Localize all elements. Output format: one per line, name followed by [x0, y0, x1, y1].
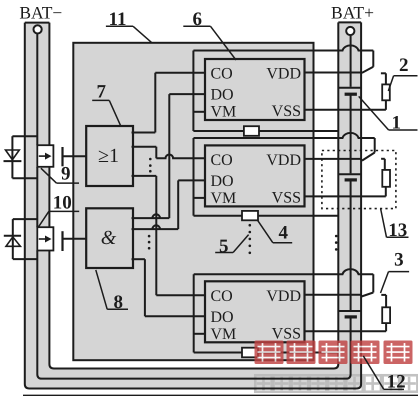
label 5 [215, 235, 248, 257]
label 4 [258, 220, 293, 243]
transistor Q9 [37, 145, 62, 167]
protection IC U3 [205, 281, 305, 343]
bottom rule [23, 394, 418, 396]
svg-text:CO: CO [211, 288, 233, 305]
AND gate (8) [86, 208, 133, 268]
svg-text:CO: CO [211, 152, 233, 169]
battery cell B3 [338, 311, 361, 317]
wire VDD2 [305, 158, 362, 160]
wire CO3 to OR [132, 176, 206, 295]
wire VM2 tap loop [194, 133, 375, 161]
svg-text:3: 3 [394, 250, 404, 271]
dashed block (13) [322, 151, 396, 209]
dots (more cells) [335, 235, 338, 251]
label 11 [106, 9, 152, 43]
svg-text:CO: CO [211, 66, 233, 83]
dots (more AND inputs) [148, 235, 151, 250]
svg-text:DO: DO [211, 87, 234, 104]
label 8 [96, 270, 128, 313]
OR gate (7) [86, 126, 133, 186]
bottom return wire [37, 251, 350, 379]
wire VM1 tap loop [193, 45, 373, 73]
diode D1 [4, 136, 38, 178]
watermark logo text [255, 341, 413, 365]
resistor R3 (3) [381, 295, 390, 323]
resistor R-VM2 [194, 211, 339, 220]
svg-text:4: 4 [279, 223, 289, 244]
svg-text:2: 2 [399, 55, 409, 76]
svg-text:VM: VM [211, 326, 237, 343]
label 3 [381, 250, 410, 293]
svg-text:≥1: ≥1 [98, 145, 119, 167]
label 13 [381, 209, 409, 242]
label 7 [92, 82, 120, 126]
wire DO1 to AND [132, 94, 206, 218]
label 12 [363, 356, 405, 393]
wire DO2 to AND [132, 180, 206, 229]
diode D2 [4, 219, 38, 259]
resistor R13 [381, 159, 390, 187]
label 10 [38, 193, 79, 228]
svg-text:&: & [101, 227, 117, 249]
wire VDD1 [305, 72, 362, 74]
label 2 [388, 55, 417, 91]
svg-text:5: 5 [219, 236, 229, 257]
pack tube walls [25, 22, 361, 388]
wire VDD3 [305, 294, 362, 296]
Q10 gate wire [64, 238, 87, 240]
svg-text:VDD: VDD [266, 152, 301, 169]
BAT- terminal [34, 25, 42, 33]
label 1 [359, 96, 418, 133]
wire CO1 to OR [132, 73, 206, 133]
svg-text:BAT−: BAT− [19, 2, 62, 22]
svg-text:VDD: VDD [266, 66, 301, 83]
resistor R-VM1 [193, 126, 338, 136]
protection IC U2 [205, 145, 305, 207]
wire VM3 tap loop [194, 269, 374, 296]
svg-text:BAT+: BAT+ [331, 2, 374, 22]
svg-text:VSS: VSS [272, 189, 301, 206]
wire VM2 branch [194, 138, 206, 216]
protection module box (11) [73, 43, 313, 360]
svg-text:DO: DO [211, 173, 234, 190]
svg-text:VM: VM [211, 104, 237, 121]
svg-text:VM: VM [211, 190, 237, 207]
resistor R2 (2) [381, 73, 390, 100]
wire VM3 branch [194, 274, 205, 352]
svg-text:DO: DO [211, 309, 234, 326]
label 6 [183, 9, 236, 60]
wire VSS3 [305, 323, 387, 331]
dots (more ICs, 5) [249, 224, 252, 254]
battery pack main power path (gray tube) [25, 22, 361, 388]
resistor R-VM3 [194, 348, 339, 358]
battery stack wire [350, 35, 352, 311]
svg-text:VSS: VSS [272, 103, 301, 120]
wire CO2 to OR [132, 147, 206, 159]
dots (more OR inputs) [149, 158, 152, 173]
label BAT- [19, 2, 62, 22]
svg-text:VSS: VSS [272, 325, 301, 342]
svg-text:VDD: VDD [266, 288, 301, 305]
svg-text:9: 9 [61, 164, 71, 185]
wire VSS2 [305, 187, 386, 197]
battery cell B2 [338, 174, 361, 180]
BAT- conductor wire [36, 33, 38, 227]
svg-text:7: 7 [97, 82, 107, 103]
battery cell B1 [338, 88, 361, 95]
svg-text:10: 10 [53, 193, 72, 214]
wire VSS1 [305, 100, 386, 110]
wire DO3 to AND [132, 259, 206, 316]
watermark subtitle text [255, 375, 417, 392]
label 9 [41, 164, 79, 185]
wire VM1 branch [193, 51, 205, 132]
transistor Q10 [37, 227, 62, 251]
BAT+ terminal [346, 27, 354, 35]
protection IC U1 (6) [205, 59, 305, 121]
Q9 gate wire [64, 155, 87, 157]
label BAT+ [331, 2, 374, 22]
